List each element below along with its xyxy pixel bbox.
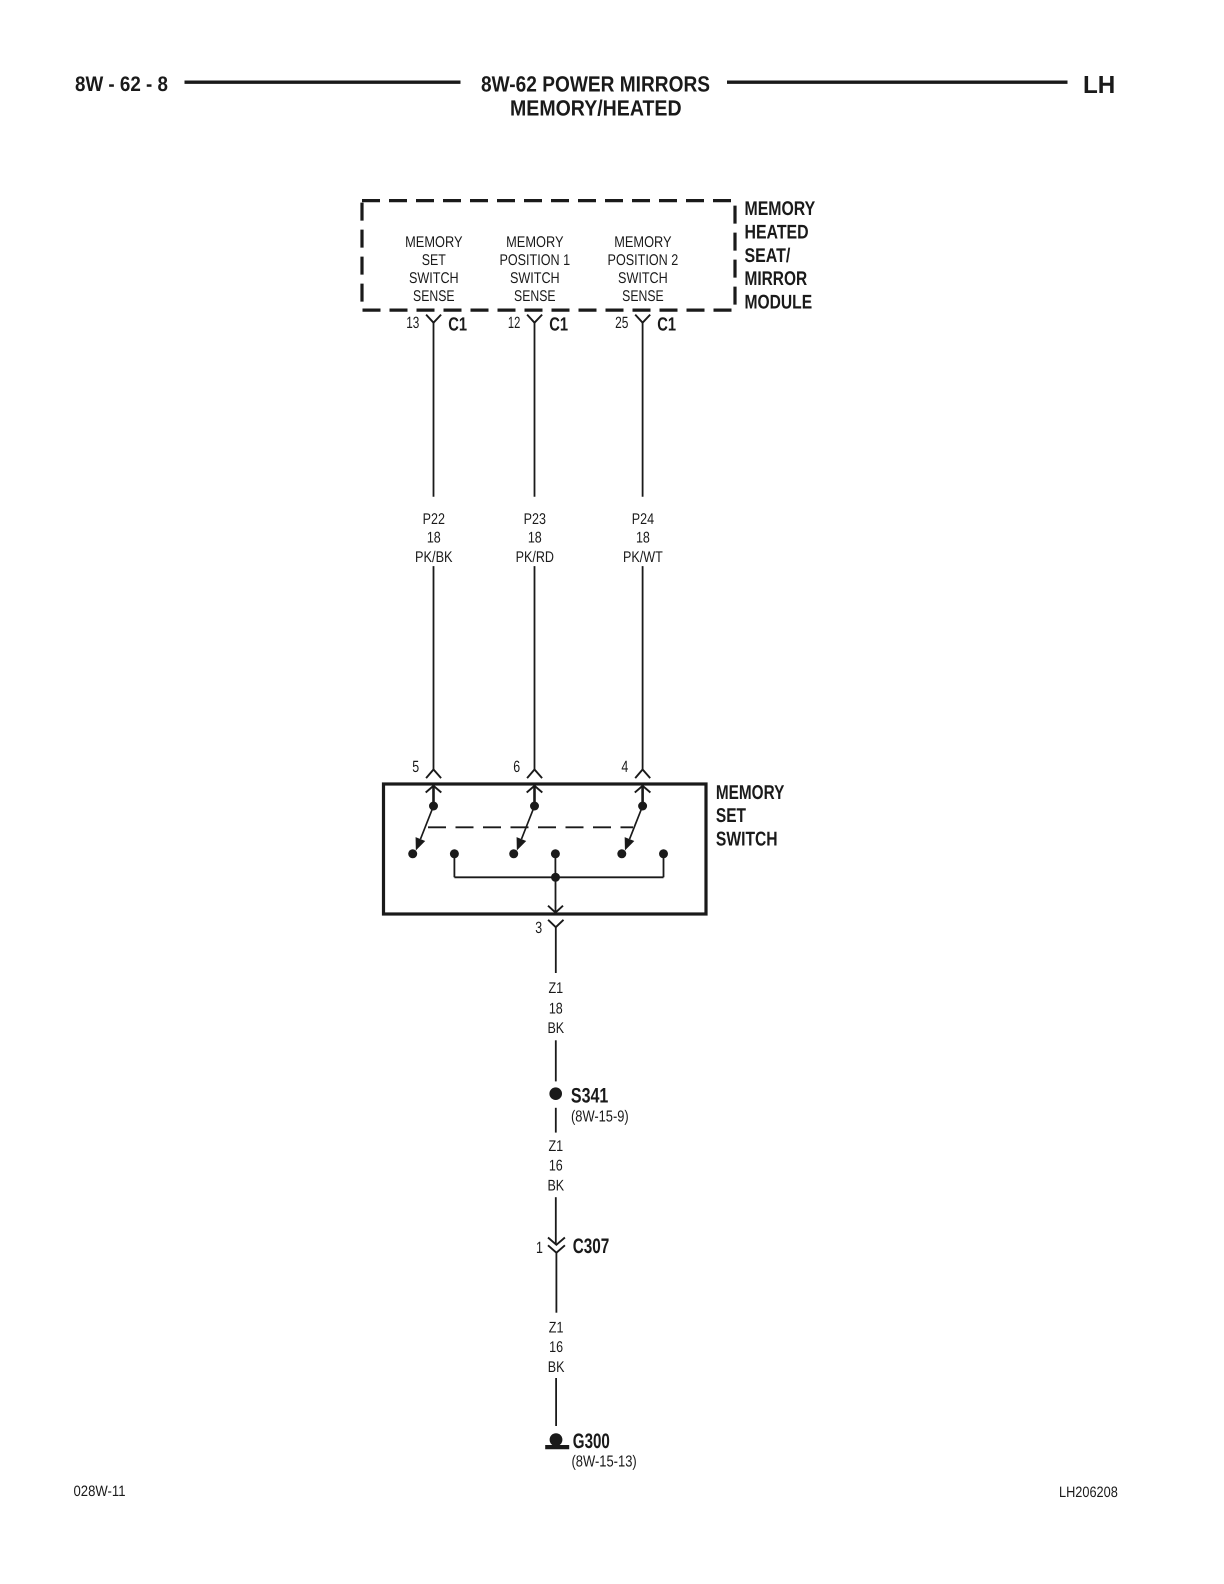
svg-text:13: 13	[406, 314, 419, 332]
switch 3 arm with arrowhead	[630, 806, 643, 839]
svg-text:16: 16	[549, 1158, 563, 1175]
svg-text:BK: BK	[547, 1020, 564, 1037]
wire P22 upper segment	[433, 323, 435, 497]
svg-text:18: 18	[549, 1000, 563, 1017]
wire Z1 16 BK (lower) segment a	[555, 1253, 557, 1313]
svg-text:18: 18	[636, 529, 650, 546]
svg-text:C1: C1	[657, 315, 676, 336]
svg-text:3: 3	[535, 919, 542, 937]
contact stub wire 1	[453, 854, 455, 878]
svg-text:MEMORY: MEMORY	[405, 234, 462, 251]
svg-text:SWITCH: SWITCH	[409, 270, 459, 287]
svg-text:P23: P23	[524, 511, 546, 528]
svg-text:POSITION 1: POSITION 1	[499, 252, 570, 269]
svg-text:BK: BK	[548, 1359, 565, 1376]
svg-text:HEATED: HEATED	[745, 222, 809, 244]
svg-text:SWITCH: SWITCH	[618, 270, 668, 287]
svg-text:8W-62 POWER MIRRORS: 8W-62 POWER MIRRORS	[481, 71, 710, 96]
svg-text:Z1: Z1	[549, 1320, 564, 1337]
svg-text:25: 25	[615, 314, 628, 332]
svg-text:SET: SET	[716, 805, 746, 827]
ground G300 symbol bar	[545, 1445, 569, 1449]
switch 2 common contact dot	[530, 802, 539, 811]
svg-text:LH: LH	[1083, 72, 1115, 99]
switch 2 throw contact dot right	[551, 849, 560, 858]
svg-text:1: 1	[536, 1239, 543, 1257]
common bus wire	[454, 876, 663, 878]
switch 1 throw contact dot right	[450, 849, 459, 858]
ground G300 symbol dot	[550, 1433, 563, 1446]
svg-text:BK: BK	[547, 1177, 564, 1194]
wire Z1 16 BK (lower) segment b	[555, 1378, 557, 1426]
svg-text:MEMORY/HEATED: MEMORY/HEATED	[510, 95, 682, 120]
svg-text:16: 16	[549, 1339, 563, 1356]
svg-text:(8W-15-13): (8W-15-13)	[572, 1454, 637, 1471]
header rule right	[727, 81, 1068, 84]
wire Z1 18 BK segment a	[555, 927, 557, 973]
switch output arrowhead	[548, 906, 563, 913]
contact stub wire 3	[663, 854, 665, 878]
switch 1 throw contact dot left	[408, 849, 417, 858]
module U1 MEMORY HEATED SEAT/MIRROR MODULE dashed box	[362, 201, 735, 311]
wire P24 lower segment	[642, 566, 644, 769]
svg-text:18: 18	[427, 529, 441, 546]
switch 2 throw contact dot left	[509, 849, 518, 858]
svg-text:SWITCH: SWITCH	[716, 828, 778, 850]
wire Z1 16 BK segment b	[555, 1197, 557, 1244]
svg-text:MIRROR: MIRROR	[745, 268, 808, 290]
svg-text:POSITION 2: POSITION 2	[608, 252, 679, 269]
svg-text:LH206208: LH206208	[1059, 1484, 1118, 1501]
svg-text:PK/WT: PK/WT	[623, 549, 663, 566]
svg-text:SWITCH: SWITCH	[510, 270, 560, 287]
svg-text:Z1: Z1	[548, 1138, 563, 1155]
svg-text:MODULE: MODULE	[745, 291, 813, 313]
svg-text:P22: P22	[423, 511, 445, 528]
svg-text:12: 12	[508, 314, 520, 332]
switch 2 input arrow	[527, 786, 543, 793]
contact stub wire 2	[554, 854, 556, 878]
svg-text:MEMORY: MEMORY	[716, 782, 785, 804]
svg-text:MEMORY: MEMORY	[745, 198, 816, 220]
switch 3 throw contact dot left	[617, 849, 626, 858]
svg-text:C307: C307	[573, 1235, 610, 1258]
svg-text:(8W-15-9): (8W-15-9)	[571, 1109, 629, 1126]
svg-text:C1: C1	[549, 315, 568, 336]
svg-text:SENSE: SENSE	[514, 288, 555, 305]
wire P23 upper segment	[534, 323, 536, 497]
bus junction dot	[551, 873, 560, 882]
splice S341	[549, 1087, 562, 1100]
svg-text:MEMORY: MEMORY	[506, 234, 563, 251]
switch 1 input arrow	[426, 786, 442, 793]
svg-text:MEMORY: MEMORY	[614, 234, 671, 251]
mechanical linkage dashed line	[428, 826, 633, 828]
svg-text:SENSE: SENSE	[622, 288, 663, 305]
svg-text:Z1: Z1	[548, 980, 563, 997]
svg-text:SEAT/: SEAT/	[745, 245, 791, 267]
svg-text:PK/BK: PK/BK	[415, 549, 453, 566]
switch 2 arm with arrowhead	[522, 806, 535, 839]
svg-text:8W - 62 - 8: 8W - 62 - 8	[75, 73, 168, 96]
svg-text:028W-11: 028W-11	[74, 1483, 126, 1500]
svg-text:PK/RD: PK/RD	[516, 549, 554, 566]
switch 3 common contact dot	[638, 802, 647, 811]
svg-text:5: 5	[412, 758, 419, 776]
wire P23 lower segment	[534, 566, 536, 769]
header rule left	[185, 81, 461, 84]
svg-text:G300: G300	[573, 1430, 610, 1453]
svg-text:18: 18	[528, 529, 542, 546]
switch 3 throw contact dot right	[659, 849, 668, 858]
wire Z1 18 BK segment b	[555, 1040, 557, 1081]
wire Z1 16 BK segment a	[555, 1108, 557, 1133]
svg-text:SET: SET	[422, 252, 447, 269]
svg-text:SENSE: SENSE	[413, 288, 454, 305]
switch output wire	[555, 877, 557, 912]
svg-text:P24: P24	[632, 511, 655, 528]
svg-text:6: 6	[513, 758, 520, 776]
switch 3 input arrow	[635, 786, 651, 793]
svg-text:S341: S341	[571, 1085, 609, 1108]
svg-text:4: 4	[621, 758, 628, 776]
switch 1 common contact dot	[429, 802, 438, 811]
wire P24 upper segment	[642, 323, 644, 497]
wire P22 lower segment	[433, 566, 435, 769]
memory set switch S1 box	[384, 784, 707, 914]
switch 1 arm with arrowhead	[421, 806, 434, 839]
svg-text:C1: C1	[448, 315, 467, 336]
